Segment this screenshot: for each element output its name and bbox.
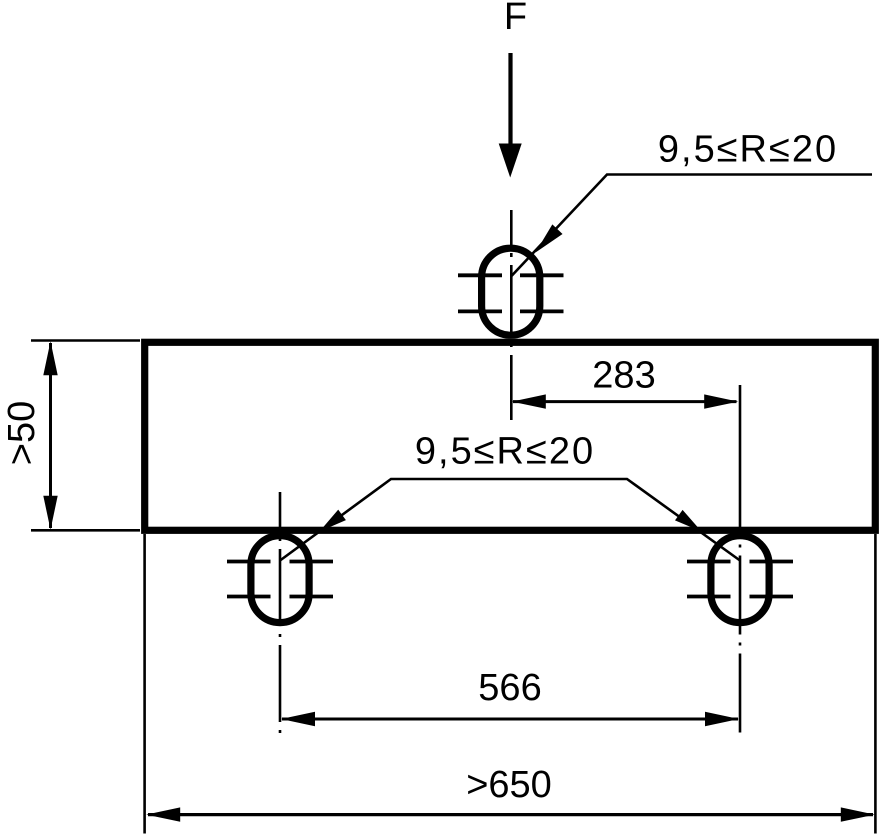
upper roller [482,248,540,335]
svg-text:>50: >50 [1,401,43,465]
svg-text:566: 566 [478,667,541,709]
upper roller centerline [510,210,513,420]
dimension >650 right arrowhead [841,807,875,821]
lower right roller centerline (dashed part) [739,545,742,738]
lower right roller [711,536,769,623]
lower right roller centerline / extension line [739,385,742,538]
dimension >650 left arrowhead [146,807,180,821]
lower left roller [251,536,309,623]
dimension >50 top extension line [31,339,140,342]
dimension 566 right arrowhead [705,712,739,726]
dimension 283 right arrowhead [704,394,738,408]
dimension >50 down arrowhead [43,496,57,530]
leader arrowhead (lower left roller) [316,510,346,537]
svg-text:F: F [504,0,527,38]
svg-text:>650: >650 [466,764,552,806]
dimension >650 right extension line [874,534,877,834]
dimension >650 left extension line [143,534,146,834]
dimension 566 left arrowhead [281,712,315,726]
dimension >650 line [148,813,873,816]
leader arrowhead (upper roller) [530,224,562,257]
dimension 283 left arrowhead [512,394,546,408]
leader lines to lower rollers [280,479,740,561]
beam (specimen rectangle) [145,342,876,530]
leader line to upper roller [511,175,872,277]
lower left roller centerline [279,492,282,737]
dimension 283 line [513,400,737,403]
upper roller tick marks [458,275,564,311]
dimension >50 up arrowhead [43,341,57,375]
svg-text:9,5≤R≤20: 9,5≤R≤20 [415,431,595,473]
leader arrowhead (lower right roller) [675,510,705,537]
dimension >50 line [49,343,52,528]
force arrow shaft [508,53,512,147]
svg-text:9,5≤R≤20: 9,5≤R≤20 [658,129,838,171]
force arrowhead [499,144,522,178]
lower right roller tick marks [687,562,793,597]
lower left roller tick marks [227,562,333,597]
dimension 566 line [282,718,738,721]
svg-text:283: 283 [592,355,655,397]
dimension >50 bottom extension line [31,529,140,532]
